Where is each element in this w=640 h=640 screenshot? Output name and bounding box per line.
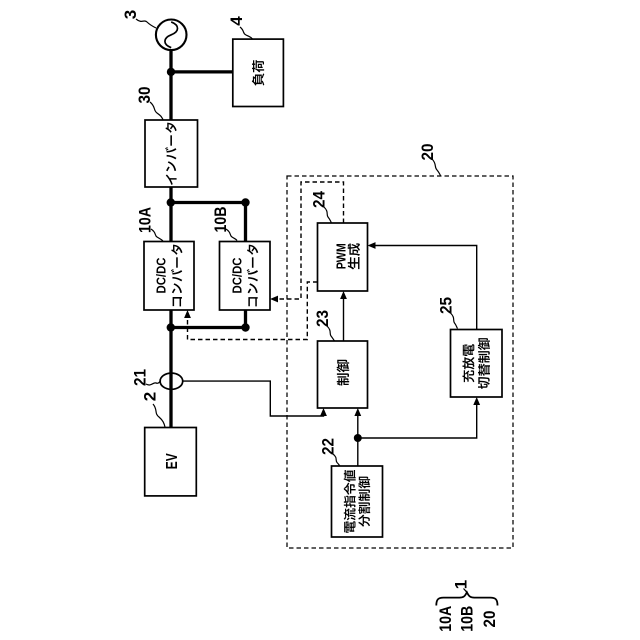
node: grid/load junction bbox=[167, 68, 175, 76]
wire: sensor 21 to control 23 bbox=[183, 381, 324, 416]
node: top rail left junction bbox=[167, 198, 175, 206]
legend brace bbox=[436, 592, 497, 605]
wire: bottom DC rail bbox=[171, 326, 246, 329]
svg-text:25: 25 bbox=[437, 297, 456, 314]
label 24 bbox=[310, 191, 329, 208]
svg-text:DC/DC: DC/DC bbox=[230, 258, 244, 294]
label: PWM generation text bbox=[335, 243, 360, 269]
svg-text:10B: 10B bbox=[458, 606, 477, 632]
label 23 bbox=[313, 310, 332, 327]
wire: box25 to PWM 24 bbox=[375, 246, 477, 330]
svg-text:2: 2 bbox=[140, 392, 159, 401]
legend 10B bbox=[458, 606, 477, 632]
legend 1 bbox=[452, 580, 471, 589]
legend 10A bbox=[436, 606, 455, 632]
svg-text:DC/DC: DC/DC bbox=[155, 258, 169, 294]
legend 20 bbox=[480, 611, 499, 628]
leader 25 bbox=[451, 313, 458, 329]
svg-text:20: 20 bbox=[418, 144, 437, 161]
AC grid source 3 bbox=[156, 20, 187, 51]
label: inverter text bbox=[165, 123, 176, 185]
node: wire 22 junction bbox=[354, 434, 362, 442]
node: top rail right junction bbox=[241, 198, 249, 206]
svg-text:23: 23 bbox=[313, 310, 332, 327]
svg-text:10B: 10B bbox=[211, 207, 230, 233]
wire: box22 to control 23 bbox=[357, 415, 359, 466]
svg-text:PWM: PWM bbox=[335, 243, 349, 269]
wire: grid vertical main line bbox=[169, 50, 172, 427]
label: EV text bbox=[164, 453, 181, 469]
PWM generator box 24 bbox=[318, 223, 368, 291]
controller dashed box 20 bbox=[287, 176, 513, 548]
wire: converter B top stub bbox=[244, 203, 247, 242]
wire: top DC rail bbox=[171, 201, 246, 204]
leader 4 bbox=[240, 27, 253, 39]
EV box 2 bbox=[145, 428, 197, 496]
svg-text:24: 24 bbox=[310, 191, 329, 208]
label 21 bbox=[131, 369, 150, 386]
label: charge-discharge switch text bbox=[462, 338, 490, 389]
wire: converter B bottom stub bbox=[244, 310, 247, 328]
svg-text:4: 4 bbox=[227, 16, 246, 26]
label: current command division text bbox=[344, 470, 371, 533]
svg-text:30: 30 bbox=[135, 87, 154, 104]
label 2 bbox=[140, 392, 159, 401]
label: converter A text bbox=[155, 245, 183, 307]
control box 23 bbox=[318, 341, 368, 408]
charge/discharge switching control box 25 bbox=[451, 330, 503, 398]
leader 22 bbox=[333, 454, 340, 466]
node: bottom rail left junction bbox=[167, 323, 175, 331]
current command division control box 22 bbox=[332, 466, 383, 537]
label 4 bbox=[227, 16, 246, 26]
leader 2 bbox=[153, 404, 165, 427]
svg-text:21: 21 bbox=[131, 369, 150, 386]
wire: junction to box25 bbox=[358, 404, 477, 438]
node: bottom rail right junction bbox=[241, 323, 249, 331]
label: converter B text bbox=[230, 245, 258, 307]
leader 24 bbox=[324, 207, 331, 223]
svg-text:3: 3 bbox=[121, 10, 140, 19]
inverter box 30 bbox=[145, 120, 198, 187]
svg-text:10A: 10A bbox=[436, 606, 455, 632]
wire: branch to load bbox=[171, 70, 233, 73]
label 20 bbox=[418, 144, 437, 161]
wire: PWM gate signal to converter A (dashed) bbox=[188, 282, 318, 340]
svg-text:20: 20 bbox=[480, 611, 499, 628]
leader 30 bbox=[150, 102, 163, 120]
leader 3 bbox=[136, 19, 156, 28]
leader 10B bbox=[226, 229, 237, 241]
leader 23 bbox=[327, 326, 335, 341]
label 10B bbox=[211, 207, 230, 233]
load box 4 bbox=[233, 39, 284, 106]
label 10A bbox=[136, 207, 155, 233]
leader 10A bbox=[151, 229, 163, 241]
svg-text:22: 22 bbox=[319, 438, 338, 455]
label 3 bbox=[121, 10, 140, 19]
leader 21 bbox=[146, 381, 161, 385]
svg-text:EV: EV bbox=[164, 453, 181, 469]
wire: PWM gate signal to converter B (dashed) bbox=[278, 182, 344, 299]
leader 1 bbox=[464, 589, 467, 593]
label: load text bbox=[252, 60, 264, 85]
label 22 bbox=[319, 438, 338, 455]
label 30 bbox=[135, 87, 154, 104]
svg-text:1: 1 bbox=[452, 580, 471, 589]
label: control text bbox=[337, 360, 350, 386]
DC/DC converter 10B bbox=[220, 242, 271, 311]
current sensor 21 bbox=[160, 373, 183, 389]
wire: control 23 to PWM 24 bbox=[343, 298, 345, 341]
leader 20 bbox=[432, 159, 441, 176]
DC/DC converter 10A bbox=[144, 242, 194, 311]
label 25 bbox=[437, 297, 456, 314]
